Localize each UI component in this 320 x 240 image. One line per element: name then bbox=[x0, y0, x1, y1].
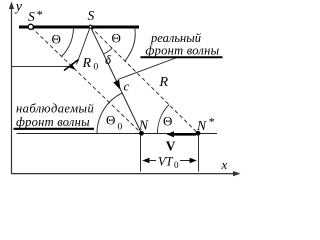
y axis bbox=[11, 7, 13, 174]
point N* bbox=[196, 131, 201, 136]
construction line from S down-left to observed wavefront mark bbox=[77, 28, 91, 65]
svg-text:N: N bbox=[138, 118, 149, 133]
theta arc at N* bbox=[157, 105, 169, 134]
svg-text:R: R bbox=[82, 56, 92, 71]
svg-text:Θ: Θ bbox=[106, 113, 115, 128]
svg-text:0: 0 bbox=[118, 123, 123, 133]
theta arc at S* bbox=[62, 27, 74, 57]
svg-text:S: S bbox=[88, 8, 95, 23]
VT0 dimension right arrow bbox=[180, 160, 190, 162]
point S small open circle bbox=[89, 25, 92, 28]
svg-text:x: x bbox=[221, 157, 228, 172]
svg-text:0: 0 bbox=[94, 63, 99, 73]
svg-text:0: 0 bbox=[174, 160, 179, 170]
solid ray S to N (c direction) bbox=[91, 27, 142, 134]
leader line of observed wavefront (horizontal, from y axis) bbox=[12, 66, 71, 68]
svg-text:Θ: Θ bbox=[52, 32, 61, 47]
svg-text:δ: δ bbox=[105, 52, 112, 67]
dashed ray S* to N bbox=[31, 27, 142, 133]
svg-text:*: * bbox=[37, 8, 43, 22]
svg-text:c: c bbox=[124, 79, 130, 94]
svg-text:y: y bbox=[14, 0, 23, 15]
svg-text:фронт волны: фронт волны bbox=[146, 44, 220, 58]
x axis bbox=[12, 173, 236, 175]
theta0 arc at N bbox=[97, 93, 123, 133]
svg-text:*: * bbox=[209, 115, 215, 129]
dashed ray S to N* (R) bbox=[91, 27, 199, 134]
real wavefront thick line through S* and S bbox=[19, 26, 139, 29]
observed wavefront element (tick across S*N) bbox=[64, 60, 79, 71]
guide line below N bbox=[140, 135, 142, 172]
guide line below N* bbox=[198, 135, 200, 172]
theta arc at S bbox=[125, 27, 135, 61]
svg-text:наблюдаемый: наблюдаемый bbox=[16, 102, 94, 116]
svg-text:Θ: Θ bbox=[163, 114, 172, 129]
VT0 dimension left arrow bbox=[142, 158, 149, 163]
svg-text:N: N bbox=[196, 118, 207, 133]
leader arrowhead pointing to mark bbox=[69, 64, 75, 70]
svg-text:S: S bbox=[28, 9, 35, 24]
svg-text:R: R bbox=[159, 75, 169, 90]
velocity vector V (thick arrow from N* leftward) bbox=[171, 133, 196, 136]
svg-text:V: V bbox=[166, 139, 176, 154]
svg-text:Θ: Θ bbox=[112, 31, 121, 46]
horizon line through N and N* bbox=[17, 133, 218, 135]
y axis arrowhead bbox=[9, 2, 14, 10]
svg-text:VT: VT bbox=[158, 155, 174, 169]
leader line from real-front label to c arrow bbox=[118, 58, 177, 80]
x axis arrowhead bbox=[233, 171, 241, 176]
delta arc at S bbox=[104, 48, 113, 54]
svg-text:фронт волны: фронт волны bbox=[16, 115, 90, 129]
arrowhead c on ray SN bbox=[113, 80, 120, 90]
point N bbox=[139, 131, 144, 136]
point S* open circle bbox=[28, 24, 33, 29]
